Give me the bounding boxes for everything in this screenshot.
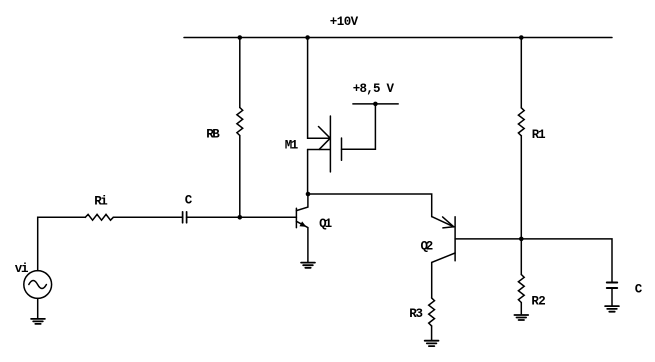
svg-text:Q2: Q2: [421, 240, 434, 254]
svg-text:M1: M1: [285, 138, 299, 152]
wire node to output capacitor: [521, 239, 612, 282]
node rail-R1 junction: [519, 35, 524, 40]
wire RB upper lead: [239, 38, 241, 108]
wire R1 lower lead: [520, 136, 522, 239]
svg-text:R1: R1: [532, 128, 546, 142]
wire C output lower lead: [611, 288, 613, 305]
source vi: [24, 271, 52, 299]
node rail-M1 junction: [305, 35, 310, 40]
wire Ri to C: [113, 216, 182, 218]
ground below R2: [514, 315, 528, 320]
ground below C output: [605, 306, 619, 312]
svg-text:R2: R2: [531, 294, 545, 308]
capacitor C input: [183, 212, 187, 223]
svg-text:C: C: [635, 283, 643, 297]
wire Q2 base to output node: [455, 238, 521, 240]
svg-text:RB: RB: [206, 127, 220, 141]
svg-text:C: C: [185, 193, 193, 207]
wire M1 gate lead: [342, 104, 376, 149]
svg-text:Q1: Q1: [319, 217, 332, 231]
svg-text:Ri: Ri: [94, 195, 108, 209]
wire +10V supply rail: [184, 37, 612, 39]
node rail-RB junction: [238, 35, 243, 40]
svg-text:vi: vi: [15, 262, 29, 276]
wire R2 lower lead: [520, 303, 522, 314]
wire R2 upper lead: [520, 239, 522, 275]
resistor RB: [237, 108, 243, 136]
transistor M1: [308, 116, 342, 172]
node gate supply junction: [373, 102, 378, 107]
ground below Q1: [301, 263, 315, 268]
svg-text:+10V: +10V: [330, 15, 359, 29]
wire R1 upper lead: [520, 38, 522, 108]
node M1 source / Q1 collector: [306, 192, 311, 197]
ground below R3: [425, 341, 439, 346]
transistor Q1: [296, 194, 308, 262]
node base-RB junction: [238, 215, 243, 220]
resistor R2: [518, 275, 524, 303]
resistor Ri: [85, 214, 113, 220]
resistor R1: [518, 108, 524, 136]
svg-text:R3: R3: [409, 307, 423, 321]
transistor Q2: [432, 217, 455, 298]
wire vi to input: [38, 217, 86, 270]
capacitor C output: [607, 283, 617, 289]
node output junction: [519, 237, 524, 242]
wire M1 source: [307, 150, 309, 195]
svg-text:+8,5 V: +8,5 V: [353, 82, 395, 96]
wire R3 lower lead: [431, 326, 433, 340]
wire C to Q1 base: [187, 216, 297, 218]
wire RB lower lead: [239, 136, 241, 218]
resistor R3: [429, 298, 435, 326]
wire +8,5V supply line: [353, 103, 398, 105]
wire node to Q2 emitter: [308, 194, 432, 217]
wire vi lower lead: [37, 298, 39, 318]
ground below vi: [31, 319, 45, 324]
wire M1 drain: [308, 38, 331, 139]
